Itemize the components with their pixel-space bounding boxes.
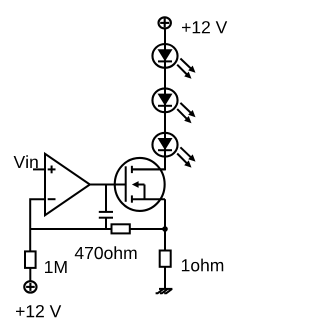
wire op-amp - input feedback: [30, 199, 45, 251]
wire feedback horizontal: [30, 228, 111, 230]
LED D3: [152, 133, 195, 168]
label 1M: [45, 261, 67, 273]
transistor Q1 (n-channel MOSFET): [115, 158, 165, 211]
label 1ohm: [182, 259, 223, 272]
wire D3 to MOSFET drain: [132, 158, 165, 170]
wire R3 to ground: [164, 267, 166, 289]
resistor R1 470ohm: [112, 224, 130, 233]
label +12 V top: [182, 21, 227, 33]
LED D1: [152, 44, 195, 79]
wire op-amp output to gate: [89, 184, 126, 186]
label 470ohm: [75, 246, 137, 259]
node junction dot: [162, 226, 168, 232]
wire Vin to op-amp + input: [33, 168, 45, 170]
label Vin: [14, 155, 38, 168]
ground: [156, 289, 173, 293]
power +12V terminal top: [159, 17, 171, 28]
capacitor C1: [99, 185, 113, 230]
wire R2 to bottom supply: [29, 268, 31, 281]
resistor R2 1M: [25, 251, 36, 268]
power +12V terminal bottom: [24, 281, 36, 292]
LED D2: [152, 88, 195, 123]
wire supply to LED D1: [164, 29, 166, 158]
wire R1 to source node: [130, 228, 165, 230]
resistor R3 1ohm: [160, 251, 171, 267]
label +12 V bottom: [16, 305, 61, 317]
op-amp U1: [45, 154, 90, 215]
wire MOSFET source down: [164, 199, 166, 250]
